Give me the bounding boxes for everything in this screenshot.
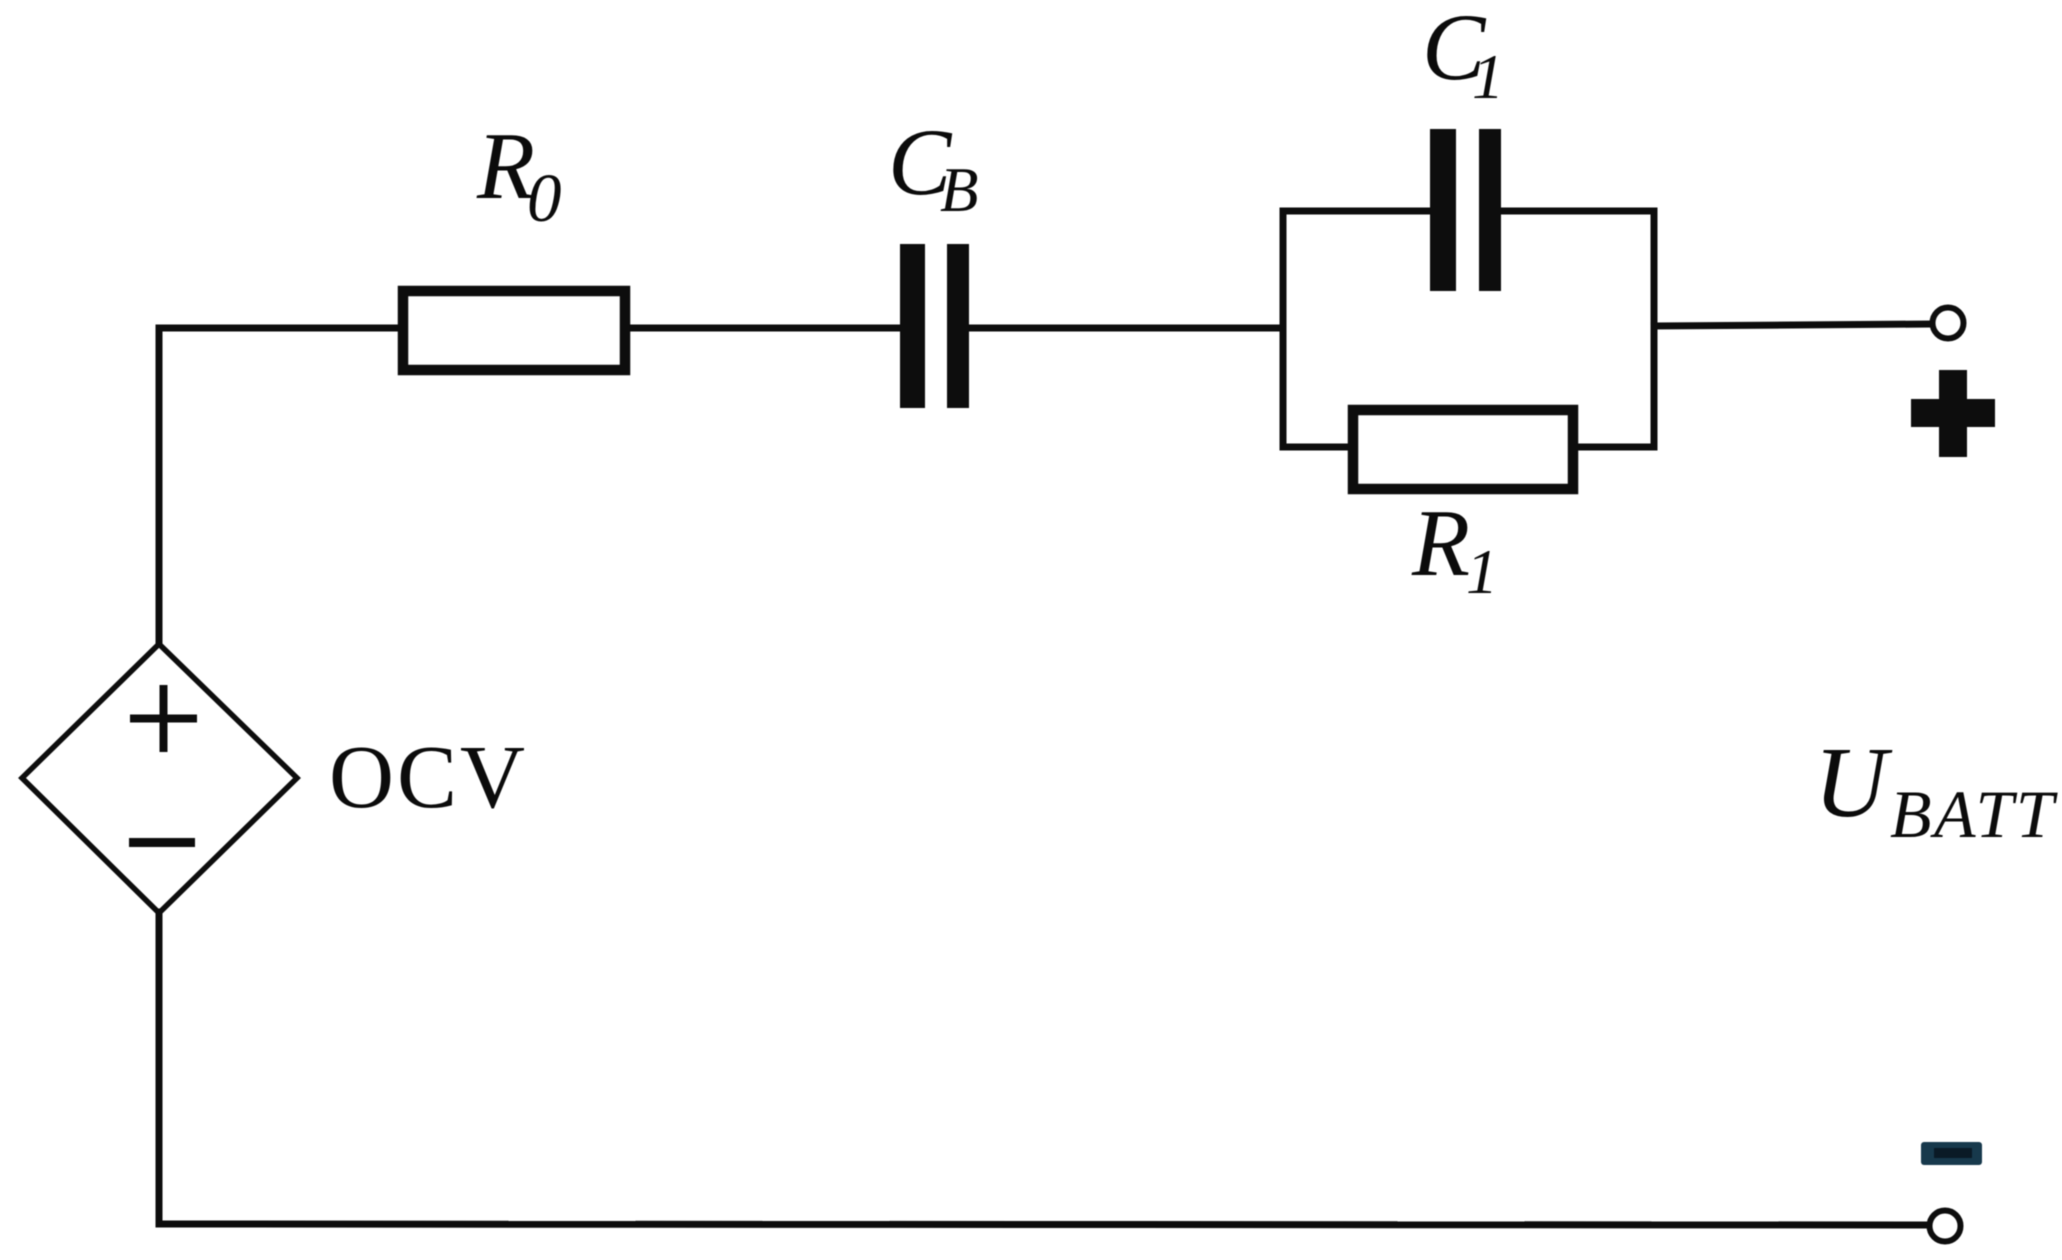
voltage source OCV (diamond) xyxy=(22,644,297,913)
wire left vertical (source top to main wire) xyxy=(156,328,163,644)
wire R1 to RC block bottom right xyxy=(1576,444,1654,451)
svg-text:BATT: BATT xyxy=(1890,776,2058,852)
wire RC block to positive terminal xyxy=(1654,324,1930,326)
capacitor CB plates xyxy=(900,244,969,408)
svg-text:OCV: OCV xyxy=(329,728,528,827)
node RC block left vertical xyxy=(1280,211,1287,447)
resistor R1 xyxy=(1353,410,1573,489)
wire top-left horizontal to R0 xyxy=(159,325,400,332)
polarity plus inside source xyxy=(130,685,197,752)
terminal negative sign - xyxy=(1921,1142,1982,1165)
terminal negative (circle) xyxy=(1930,1211,1961,1242)
terminal positive (circle) xyxy=(1933,308,1964,339)
wire source bottom vertical xyxy=(156,912,163,1224)
svg-text:R: R xyxy=(1411,490,1470,596)
terminal positive sign + xyxy=(1911,370,1995,457)
svg-text:0: 0 xyxy=(527,160,562,236)
wire C1 to RC block top right xyxy=(1500,208,1654,215)
svg-text:1: 1 xyxy=(1472,41,1504,112)
wire RC block bottom to R1 xyxy=(1283,444,1350,451)
svg-text:1: 1 xyxy=(1466,536,1498,607)
capacitor C1 plates xyxy=(1430,129,1501,291)
polarity minus inside source xyxy=(129,838,195,847)
resistor R0 xyxy=(403,291,625,370)
svg-text:U: U xyxy=(1814,726,1893,838)
wire RC block top to C1 xyxy=(1283,208,1431,215)
wire bottom horizontal to negative terminal xyxy=(159,1224,1927,1225)
node RC block right vertical xyxy=(1651,211,1658,447)
svg-text:B: B xyxy=(940,155,978,225)
wire R0 to CB xyxy=(629,325,902,332)
wire CB to RC block xyxy=(968,325,1283,332)
